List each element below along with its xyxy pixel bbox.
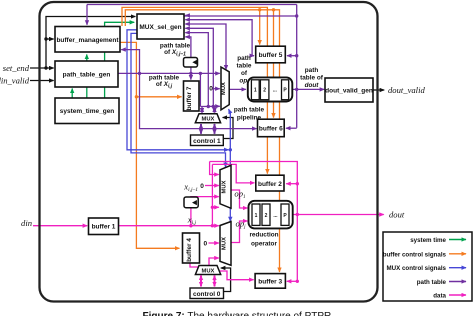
svg-text:dout_valid_gen: dout_valid_gen	[325, 88, 373, 95]
svg-text:MUX control signals: MUX control signals	[387, 265, 447, 272]
svg-text:of: of	[241, 70, 248, 77]
svg-text:din: din	[21, 218, 32, 228]
svg-text:MUX_sel_gen: MUX_sel_gen	[139, 24, 181, 31]
svg-text:buffer 6: buffer 6	[259, 126, 283, 133]
svg-text:buffer 1: buffer 1	[92, 224, 116, 231]
svg-text:2: 2	[263, 88, 266, 94]
svg-text:0: 0	[209, 86, 213, 93]
svg-text:0: 0	[203, 241, 207, 248]
svg-text:dout: dout	[305, 82, 320, 89]
svg-text:...: ...	[273, 88, 278, 94]
svg-text:MUX: MUX	[221, 82, 227, 95]
svg-text:dout_valid: dout_valid	[388, 85, 425, 95]
svg-text:din_valid: din_valid	[0, 75, 30, 85]
svg-text:Figure 7: The hardware structu: Figure 7: The hardware structure of PTPR	[143, 311, 332, 316]
svg-text:path_table_gen: path_table_gen	[63, 72, 111, 79]
svg-text:buffer 3: buffer 3	[258, 279, 282, 286]
svg-text:system_time_gen: system_time_gen	[60, 108, 115, 115]
svg-text:MUX: MUX	[202, 268, 215, 274]
svg-text:buffer control signals: buffer control signals	[383, 251, 447, 258]
svg-text:buffer_management: buffer_management	[56, 37, 119, 44]
svg-text:MUX: MUX	[221, 237, 227, 250]
svg-text:set_end: set_end	[3, 63, 30, 73]
svg-text:1: 1	[255, 213, 258, 219]
svg-text:path: path	[305, 67, 319, 74]
svg-text:control 0: control 0	[193, 291, 221, 298]
svg-text:dout: dout	[389, 210, 405, 220]
svg-text:MUX: MUX	[202, 117, 215, 123]
svg-text:2: 2	[265, 213, 268, 219]
svg-text:path table: path table	[234, 107, 265, 114]
svg-text:control 1: control 1	[193, 138, 221, 145]
svg-text:path: path	[237, 55, 251, 62]
svg-text:operator: operator	[251, 241, 277, 248]
svg-text:buffer 2: buffer 2	[258, 181, 282, 188]
svg-text:system time: system time	[410, 237, 446, 244]
svg-text:MUX: MUX	[221, 180, 227, 193]
svg-text:table: table	[237, 63, 252, 70]
svg-text:data: data	[433, 293, 446, 300]
svg-text:pipeline: pipeline	[237, 115, 262, 122]
svg-text:1: 1	[254, 88, 257, 94]
svg-text:0: 0	[200, 183, 204, 190]
svg-text:buffer 4: buffer 4	[186, 238, 193, 262]
svg-text:reduction: reduction	[249, 232, 278, 239]
svg-text:path table: path table	[417, 279, 447, 286]
svg-text:...: ...	[273, 213, 278, 219]
svg-text:table of: table of	[300, 75, 324, 82]
svg-text:buffer 7: buffer 7	[186, 86, 193, 110]
svg-text:buffer 5: buffer 5	[259, 52, 283, 59]
